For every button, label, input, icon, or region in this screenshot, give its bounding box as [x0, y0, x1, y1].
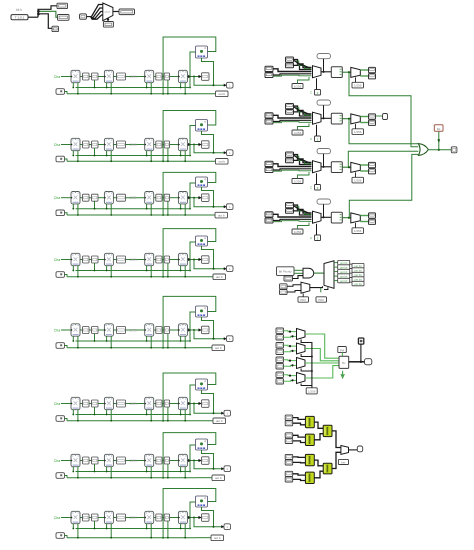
- node l1a: [289, 331, 291, 333]
- outport extra G2: [383, 114, 388, 120]
- logic block X1: [196, 46, 208, 58]
- wire ff clock stub: [146, 204, 148, 209]
- wire l3b to mux: [284, 364, 297, 367]
- block pair Y3a: [285, 454, 293, 459]
- svg-text:per bit: per bit: [340, 279, 347, 283]
- wire ff clock stub: [146, 524, 148, 529]
- wire feedback loop row7: [163, 433, 216, 478]
- svg-text:1999: 1999: [129, 75, 137, 79]
- block G5d: [156, 327, 162, 334]
- block G7c: [117, 457, 126, 464]
- wire fork green: [39, 11, 58, 17]
- wire ff clock stub: [106, 266, 108, 271]
- node loop junction row8: [162, 537, 164, 539]
- block pair L1a: [276, 328, 284, 333]
- wire l4b to mux: [284, 379, 297, 382]
- wire e-block stub: [167, 263, 169, 277]
- wire dmx o4: [334, 275, 338, 277]
- wire row input: [61, 144, 71, 146]
- node J6 junction: [193, 403, 195, 405]
- block G6d: [156, 400, 162, 407]
- outport Out5: [227, 336, 234, 342]
- block pair L1b: [276, 335, 284, 340]
- outport Out6: [224, 410, 231, 416]
- wire sel0 up: [107, 19, 109, 22]
- wire in2 to bundle: [87, 16, 91, 18]
- block G4e: [164, 256, 169, 263]
- block pair PA4a: [286, 203, 294, 208]
- wire ff clock stub: [106, 410, 108, 415]
- block PDU2: [316, 297, 327, 302]
- label block Y9: [338, 459, 348, 464]
- svg-text:C: C: [310, 186, 313, 190]
- svg-text:1999: 1999: [129, 516, 137, 520]
- wire inport jog row2: [65, 159, 68, 161]
- svg-text:out b: out b: [215, 346, 222, 350]
- block G4a: [83, 256, 90, 263]
- wire b-ff2: [98, 197, 104, 199]
- block G8e: [164, 514, 169, 521]
- wire ff reset stub: [110, 410, 112, 421]
- wire bundle 1: [90, 5, 103, 17]
- wire a-b: [89, 403, 92, 405]
- block mid lb: [280, 290, 288, 295]
- arrowhead rst: [438, 140, 440, 143]
- unit delay Z1d: [178, 70, 187, 82]
- sink block S4b: [369, 219, 376, 224]
- wire xor input row3: [190, 183, 196, 209]
- wire pb3 to mux: [273, 164, 312, 167]
- wire xor output row5: [202, 317, 214, 339]
- wire reset bus row5: [67, 347, 196, 349]
- wire ff1-a: [80, 197, 83, 199]
- arrowhead into F row1: [199, 75, 202, 78]
- wire y3b: [293, 461, 306, 463]
- reset block RST: [434, 125, 443, 132]
- unit delay Z6b: [104, 397, 113, 409]
- svg-text:per bit: per bit: [354, 264, 361, 268]
- unit delay Z1c: [145, 70, 154, 82]
- wire pb4b to mux: [273, 219, 312, 220]
- unit delay Z7a: [71, 454, 80, 466]
- wire k3a up: [298, 172, 310, 179]
- node fork: [37, 13, 40, 16]
- arrowhead ff4 out row5: [188, 329, 191, 332]
- block G1b: [92, 73, 99, 80]
- node out2: [348, 118, 350, 120]
- wire dm3 o2: [360, 170, 368, 172]
- subsystem U1: [331, 67, 342, 78]
- wire b-block stub: [94, 201, 96, 209]
- block pair Y4b: [285, 477, 293, 482]
- wire g1 to xor: [349, 72, 418, 147]
- wire t4 down: [323, 204, 325, 217]
- block G3e: [164, 194, 169, 201]
- wire y1b: [293, 423, 306, 425]
- wire ff reset stub: [150, 524, 152, 538]
- block pair Y4a: [285, 471, 293, 476]
- display D2: [216, 159, 229, 165]
- block G7d: [156, 457, 162, 464]
- block G4f: [202, 256, 210, 263]
- wire ff4-f: [187, 259, 201, 261]
- wire e-block stub: [167, 80, 169, 94]
- wire inport jog row6: [65, 419, 68, 421]
- node sel3: [311, 370, 313, 372]
- node loop junction row5: [162, 347, 164, 349]
- node J8 junction: [193, 517, 195, 519]
- wire a-b: [89, 197, 92, 199]
- mux M3: [313, 161, 322, 173]
- unit delay Z5d: [178, 324, 187, 336]
- wire z4 up: [316, 224, 318, 235]
- wire ff reset stub: [110, 151, 112, 162]
- display D5: [212, 345, 225, 351]
- wire k2b stub: [355, 124, 357, 129]
- mux M1: [313, 66, 322, 78]
- wire d-e: [162, 517, 164, 519]
- wire ff reset stub: [77, 467, 79, 478]
- block G2c: [117, 141, 126, 148]
- svg-text:1/256: 1/256: [354, 229, 362, 233]
- block pair Y1a: [285, 415, 293, 420]
- wire ff clock stub: [72, 204, 74, 209]
- wire ff reset stub: [150, 83, 152, 94]
- wire ff clock stub: [106, 467, 108, 472]
- wire extra out g2: [376, 115, 383, 117]
- wire bp to and 2: [294, 272, 303, 274]
- wire pa1b to mux: [294, 65, 312, 69]
- wire ff3-d: [154, 76, 156, 78]
- svg-text:Cha: Cha: [54, 459, 61, 463]
- wire b-ff2: [98, 259, 104, 261]
- svg-text:out b: out b: [218, 92, 225, 96]
- mux MM4: [297, 373, 306, 384]
- wire b-block stub: [94, 148, 96, 156]
- block pair L3b: [276, 364, 284, 369]
- wire b-ff2: [98, 144, 104, 146]
- unit delay Z3a: [71, 192, 80, 204]
- block G5e: [164, 327, 169, 334]
- unit delay Z1b: [104, 70, 113, 82]
- wire ff reset stub: [110, 83, 112, 94]
- wire row input: [61, 460, 71, 462]
- unit delay Z2a: [71, 138, 80, 150]
- block G7a: [83, 457, 90, 464]
- wire c-ff3: [126, 329, 145, 331]
- terminator T1: [317, 54, 331, 59]
- node loop junction row2: [162, 160, 164, 162]
- block G3b: [92, 194, 99, 201]
- wire ff clock stub: [146, 467, 148, 472]
- wire ff clock stub: [72, 151, 74, 156]
- block G7b: [92, 457, 99, 464]
- wire xor output row4: [202, 246, 214, 269]
- wire ff1-a: [80, 460, 83, 462]
- wire xor output row6: [202, 390, 214, 413]
- wire pb2b green pair: [273, 122, 312, 123]
- mux M4: [313, 211, 322, 223]
- wire src to fork: [28, 16, 38, 18]
- inport In5: [56, 343, 65, 349]
- unit delay Z4d: [178, 253, 187, 265]
- wire ff clock stub: [72, 524, 74, 529]
- wire pa2 green pair: [295, 108, 312, 116]
- wire ff reset stub: [110, 467, 112, 478]
- node loop junction row7: [162, 477, 164, 479]
- logic block X5: [196, 306, 208, 317]
- wire inport jog row8: [65, 536, 68, 538]
- wire e-ff4: [170, 76, 179, 78]
- inport In6: [56, 416, 65, 422]
- wire e-block stub: [167, 521, 169, 538]
- wire ff3-d: [154, 329, 156, 331]
- block pair L2a: [276, 343, 284, 348]
- arrowhead ff4 out row3: [188, 196, 191, 199]
- wire dm1 o2: [360, 75, 368, 77]
- svg-text:C: C: [310, 236, 313, 240]
- svg-text:ber: ber: [341, 460, 345, 464]
- block pair Y1b: [285, 421, 293, 426]
- wire dmx o1: [334, 262, 338, 264]
- block mid la: [280, 284, 288, 289]
- logic block X8: [196, 496, 208, 507]
- green arrow down: [341, 371, 344, 378]
- wire reset bus row7: [67, 477, 196, 479]
- block G8c: [117, 514, 126, 521]
- wire mux2 sel: [301, 354, 312, 357]
- block pair L4b: [276, 379, 284, 384]
- block G5b: [92, 327, 99, 334]
- wire inport jog row5: [65, 346, 68, 348]
- wire to outport row8: [194, 518, 224, 527]
- wire ff reset stub: [77, 524, 79, 538]
- node l3a: [289, 360, 291, 362]
- wire d-e: [162, 329, 164, 331]
- node loop junction row3: [162, 214, 164, 216]
- svg-text:1999: 1999: [129, 196, 137, 200]
- delay block Z4: [315, 235, 321, 241]
- block pair PA1a: [286, 57, 294, 62]
- wire a-b: [89, 517, 92, 519]
- wire row input: [61, 517, 71, 519]
- block G5a: [83, 327, 90, 334]
- svg-text:1999: 1999: [129, 258, 137, 262]
- outport Out1: [227, 82, 234, 88]
- wire pa2b to mux: [294, 112, 312, 116]
- wire ff1-a: [80, 259, 83, 261]
- sink block S4a: [369, 213, 376, 218]
- svg-text:1999: 1999: [129, 459, 137, 463]
- wire to outport row7: [194, 461, 224, 469]
- wire y2b: [293, 441, 306, 443]
- wire clock bus row8: [76, 528, 191, 530]
- wire ff reset stub: [150, 266, 152, 277]
- label block PC1: [352, 263, 364, 267]
- block G2e: [164, 141, 169, 148]
- label block PB3: [338, 269, 350, 273]
- block G6f: [202, 400, 210, 408]
- wire ff reset stub: [150, 336, 152, 348]
- wire knot extra g1: [294, 61, 310, 69]
- wire col2 3: [350, 272, 352, 274]
- block G3a: [83, 194, 90, 201]
- arrowhead into F row8: [199, 516, 202, 519]
- unit delay Z5c: [145, 324, 154, 336]
- wire pa1 to mux: [294, 60, 312, 68]
- wire ff2-c: [113, 144, 116, 146]
- sink block B2: [119, 9, 135, 15]
- node l2a: [289, 345, 291, 347]
- sink block S3a: [369, 162, 376, 167]
- node loop junction row4: [162, 276, 164, 278]
- svg-text:out b: out b: [215, 476, 222, 480]
- wire k4a up: [298, 223, 310, 230]
- wire c-ff3: [126, 259, 145, 261]
- node l3b: [291, 364, 293, 366]
- wire ff reset stub: [184, 83, 186, 94]
- outport Out3: [227, 204, 234, 210]
- wire yc1 to mux: [332, 431, 341, 448]
- arrowhead ff4 out row7: [188, 459, 191, 462]
- unit delay Z3d: [178, 192, 187, 204]
- wire inport jog row1: [65, 92, 68, 94]
- wire xor input row4: [190, 242, 196, 271]
- block G8f: [202, 514, 210, 522]
- unit delay Z2d: [178, 138, 187, 150]
- wire to label row1: [196, 93, 216, 95]
- wire ff1-a: [80, 76, 83, 78]
- demux DM2: [351, 114, 361, 124]
- wire b-block stub: [94, 464, 96, 472]
- wire ff2-c: [113, 76, 116, 78]
- wire feedback loop row8: [163, 489, 216, 538]
- wire reset bus row2: [67, 160, 196, 162]
- wire ff clock stub: [106, 336, 108, 341]
- logic block X2: [196, 120, 208, 132]
- wire b-ff2: [98, 76, 104, 78]
- svg-text:Cha: Cha: [54, 196, 61, 200]
- display D1: [216, 91, 229, 97]
- block G6c: [117, 400, 126, 407]
- logic block X6: [196, 379, 208, 390]
- wire row input: [61, 329, 71, 331]
- selector block SEL0: [103, 22, 113, 28]
- wire ff reset stub: [77, 204, 79, 215]
- wire reset bus row8: [67, 537, 196, 539]
- unit delay Z7d: [178, 454, 187, 466]
- svg-text:Rs: Rs: [437, 127, 441, 131]
- wire c-ff3: [126, 460, 145, 462]
- wire pa4 to mux: [294, 205, 312, 213]
- subsystem U2: [331, 113, 342, 124]
- unit delay Z6a: [71, 397, 80, 409]
- block bp sub: [284, 276, 293, 281]
- wire mux0 out: [113, 11, 119, 13]
- block G6e: [164, 400, 169, 407]
- block G6b: [92, 400, 99, 407]
- wire c-ff3: [126, 197, 145, 199]
- block G2d: [156, 141, 162, 148]
- xor block YC2: [323, 463, 332, 474]
- wire dm4 o2: [360, 221, 368, 223]
- wire ff3-d: [154, 517, 156, 519]
- wire ff3-d: [154, 259, 156, 261]
- display D8: [211, 535, 224, 541]
- wire knot extra g3: [294, 156, 310, 164]
- mux M5: [301, 282, 310, 293]
- wire d-e: [162, 403, 164, 405]
- unit delay Z8c: [145, 511, 154, 523]
- svg-text:out b: out b: [214, 536, 221, 540]
- wire xor output row2: [202, 131, 214, 153]
- wire ff clock stub: [146, 336, 148, 341]
- display D7: [212, 475, 225, 481]
- wire ff reset stub: [184, 336, 186, 348]
- wire ff3-d: [154, 144, 156, 146]
- block pair PA2b: [286, 110, 294, 115]
- block G2b: [92, 141, 99, 148]
- wire d-e: [162, 144, 164, 146]
- wire pa4b to mux: [294, 211, 312, 215]
- wire clock bus row7: [76, 471, 191, 473]
- wire feedback loop row4: [163, 229, 216, 277]
- wire ff reset stub: [110, 204, 112, 215]
- block PDU1: [298, 297, 309, 302]
- svg-text:per bit: per bit: [354, 277, 361, 281]
- wire ff reset stub: [184, 204, 186, 215]
- wire feedback loop row6: [163, 373, 216, 421]
- wire yl2 2b: [314, 471, 323, 478]
- demux DM1: [351, 67, 361, 77]
- wire mux3 to U3: [321, 166, 331, 168]
- svg-text:out b: out b: [216, 275, 223, 279]
- block pair PA3a: [286, 152, 294, 157]
- wire e-block stub: [167, 148, 169, 161]
- wire to label row5: [196, 347, 212, 349]
- wire reset bus row1: [67, 93, 196, 95]
- wire ff2-c: [113, 517, 116, 519]
- block pair PB3a: [265, 161, 273, 166]
- sink block S2b: [369, 120, 376, 125]
- wire mux2 to U2: [321, 117, 331, 119]
- block G6a: [83, 400, 90, 407]
- demux DM3: [351, 162, 361, 172]
- wire e-block stub: [167, 201, 169, 215]
- wire col2 4: [350, 277, 352, 279]
- wire xor output row1: [202, 58, 214, 85]
- wire ff clock stub: [180, 83, 182, 88]
- wire pb2 to mux: [273, 115, 312, 118]
- wire dm2 o1: [360, 116, 368, 118]
- logic block X7: [196, 439, 208, 450]
- label block PB5: [338, 278, 350, 282]
- xor gate U10: [418, 144, 428, 156]
- delay block Z1: [315, 90, 321, 96]
- wire ff clock stub: [180, 204, 182, 209]
- wire e-block stub: [167, 334, 169, 348]
- display D6: [213, 418, 226, 424]
- arrowhead ff4 out row8: [188, 516, 191, 519]
- unit delay Z8b: [104, 511, 113, 523]
- wire ff reset stub: [150, 204, 152, 215]
- wire xor output row3: [202, 187, 214, 207]
- block G4d: [156, 256, 162, 263]
- wire a-b: [89, 329, 92, 331]
- svg-text:1/256: 1/256: [294, 84, 302, 88]
- svg-text:1999: 1999: [129, 143, 137, 147]
- subsystem U3: [331, 162, 342, 173]
